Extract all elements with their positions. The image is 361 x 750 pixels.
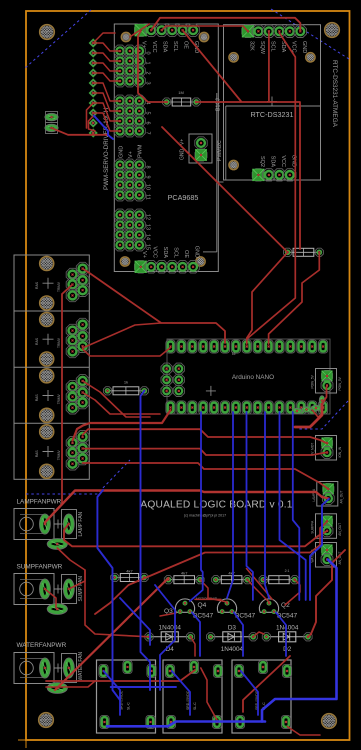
svg-text:7: 7 xyxy=(145,131,151,134)
svg-text:LAMP FAN: LAMP FAN xyxy=(78,511,84,536)
PCA9685 channel pad group 3 xyxy=(114,209,145,251)
resistor R7 near RTC xyxy=(293,248,314,256)
wire long diagonal to R7 xyxy=(162,127,288,252)
svg-text:32K: 32K xyxy=(249,41,255,51)
svg-text:4k7: 4k7 xyxy=(181,571,188,576)
svg-text:POW_5V: POW_5V xyxy=(338,376,342,390)
svg-text:SQW: SQW xyxy=(259,41,265,55)
polygon edge dashed mid-left xyxy=(26,460,130,494)
pad below LAMPFANPWR xyxy=(47,539,67,550)
NANO centre cross xyxy=(206,386,216,396)
svg-text:4k7: 4k7 xyxy=(126,569,133,574)
wire blue nano 6 xyxy=(293,412,300,600)
svg-text:GND: GND xyxy=(119,146,125,158)
svg-text:(c) machine@pl*pl pl 2017: (c) machine@pl*pl pl 2017 xyxy=(184,514,226,518)
wire R3 to Q xyxy=(200,580,227,602)
pad cluster near X2 ovals xyxy=(292,396,325,414)
PCA9685 top pin row xyxy=(135,24,200,36)
wire blue relay diag C xyxy=(241,671,258,715)
svg-text:PWMI2C: PWMI2C xyxy=(217,140,223,161)
fiducial via module top-left xyxy=(108,32,144,41)
svg-text:15: 15 xyxy=(145,244,151,250)
svg-text:OE: OE xyxy=(183,250,189,258)
svg-text:V+: V+ xyxy=(180,139,186,145)
svg-text:POW_5V: POW_5V xyxy=(311,374,315,388)
wire bus A xyxy=(83,429,328,443)
wire blue resistor drop xyxy=(141,391,151,690)
relay K1 hole bottom xyxy=(22,296,72,310)
PCA9685 bottom pin labels xyxy=(141,246,199,259)
NANO top pin row xyxy=(166,340,328,353)
transistor Q4 BC547 xyxy=(217,599,236,613)
wire cluster2 to nano xyxy=(83,348,171,357)
relay K3 hole bottom xyxy=(22,408,72,422)
wire sump vertical xyxy=(57,548,149,637)
svg-text:RAS: RAS xyxy=(35,337,39,345)
PCA9685 channel pad group 0 xyxy=(114,45,145,87)
resistor R3 4k7 xyxy=(174,576,195,584)
wire water diag long xyxy=(55,578,168,690)
polygon edge dashed top-right xyxy=(271,9,349,59)
wire cluster2 diagonal xyxy=(83,323,161,348)
label GND V+ PWM xyxy=(119,144,144,158)
module outline U1 PCA9685 xyxy=(114,24,218,272)
wire cluster1 diagonal xyxy=(83,269,225,343)
wire blue nano 3 xyxy=(247,412,253,600)
svg-text:V+: V+ xyxy=(141,251,147,258)
power jack WATERFANPWR xyxy=(14,653,54,684)
diode D4 1N4004 xyxy=(149,636,191,638)
wire right big diag to D2 xyxy=(308,550,345,637)
resistor R1 4k7 xyxy=(120,574,138,582)
svg-text:8: 8 xyxy=(145,165,151,168)
relay K1 centre cross xyxy=(43,278,54,289)
relay K4 pad cluster xyxy=(66,431,89,470)
svg-text:LAMPFANPWR: LAMPFANPWR xyxy=(17,499,62,506)
wire blue Q to relay 3 xyxy=(276,613,286,657)
wire SDA down to R2 xyxy=(138,31,167,102)
PCA9685 channel numbers 2 xyxy=(145,165,151,199)
svg-text:SCL: SCL xyxy=(172,41,178,52)
wire cluster3 out xyxy=(83,393,160,415)
wire OE diagonal to bus xyxy=(183,30,242,101)
wire nano pad to L xyxy=(312,410,322,417)
wire R2 bus right xyxy=(196,102,300,249)
transistor Q3 BC547 xyxy=(175,599,194,613)
wire nano feed A xyxy=(73,410,171,441)
wire bus C xyxy=(83,463,329,489)
relay K2 hole top xyxy=(22,313,72,327)
relay K5 xyxy=(97,660,157,733)
RTC centre cross xyxy=(267,97,277,107)
svg-text:SDA: SDA xyxy=(269,156,275,168)
svg-text:WATERFANPWR: WATERFANPWR xyxy=(17,642,67,649)
svg-text:SDA: SDA xyxy=(162,41,168,53)
wire JP1 to servo header xyxy=(52,128,109,135)
svg-text:AQUALED LOGIC BOARD v 0.1: AQUALED LOGIC BOARD v 0.1 xyxy=(140,500,292,511)
RTC bottom pin labels xyxy=(259,155,296,168)
wire blue Q to relay 1 xyxy=(192,613,200,657)
svg-text:SCL: SCL xyxy=(173,247,179,258)
relay K4 hole top xyxy=(22,425,72,439)
resistor R6 1k xyxy=(103,380,148,395)
mounting hole bottom-left xyxy=(21,713,72,728)
relay K2 centre cross xyxy=(43,334,54,345)
relay K3 centre cross xyxy=(43,390,54,401)
svg-text:SL-C: SL-C xyxy=(127,702,131,710)
connector X1 POW_5V xyxy=(311,369,343,394)
wire top rail 2 xyxy=(162,26,248,31)
PCA9685 channel numbers 3 xyxy=(145,214,151,250)
PCA9685 top pin labels xyxy=(141,41,199,53)
wire blue nano 1 xyxy=(190,412,203,601)
svg-text:TRIMV: TRIMV xyxy=(57,337,61,348)
RTC via right-top xyxy=(293,53,329,62)
svg-text:SQ2: SQ2 xyxy=(259,156,265,167)
wire D3 link xyxy=(253,632,264,637)
wire L to conn1 xyxy=(322,387,327,404)
wire lamp right to conn4 xyxy=(64,524,327,547)
wire relay mid red xyxy=(243,656,290,712)
wire servo header stub top xyxy=(87,103,94,128)
relay K3 pad cluster xyxy=(66,375,89,414)
relay K6 xyxy=(163,660,223,733)
NANO ICSP header xyxy=(161,363,184,396)
svg-text:14: 14 xyxy=(145,234,151,240)
wire servo header branch xyxy=(89,115,96,131)
polygon edge dashed top-left xyxy=(25,10,91,68)
wire top rail VCC xyxy=(151,18,300,32)
wire water bottom 2 xyxy=(46,681,95,687)
pin pad right WATERFANPWR xyxy=(54,654,77,683)
power jack LAMPFANPWR xyxy=(14,509,54,540)
RTC top pin labels xyxy=(249,41,307,55)
svg-text:2:1: 2:1 xyxy=(285,569,290,573)
svg-text:SUMPFANPWR: SUMPFANPWR xyxy=(17,564,63,571)
svg-text:SDA: SDA xyxy=(162,247,168,259)
power jack SUMPFANPWR xyxy=(14,574,54,605)
wire servo stubs xyxy=(93,43,120,131)
connector X5 WATERFAN_OUT xyxy=(311,543,343,568)
svg-text:VCC: VCC xyxy=(152,246,158,258)
wire water bottom 1 xyxy=(46,670,195,681)
wire D4 to relay xyxy=(191,637,196,656)
svg-text:D2: D2 xyxy=(283,646,292,653)
mounting hole top-right xyxy=(307,23,358,38)
wire blue relay diag B xyxy=(172,671,190,715)
svg-text:0: 0 xyxy=(145,51,151,54)
wire blue nano 5 xyxy=(280,412,306,600)
svg-text:9: 9 xyxy=(145,175,151,178)
svg-text:Q4: Q4 xyxy=(198,602,207,609)
connector X4 SUMPFAN_OUT xyxy=(311,514,343,539)
relay K4 centre cross xyxy=(43,446,54,457)
relay K1 hole top xyxy=(22,257,72,271)
svg-text:13: 13 xyxy=(145,224,151,230)
wire blue lamp drop xyxy=(97,490,120,700)
servo header pin column J1 xyxy=(90,40,97,137)
relay K1 pad cluster xyxy=(66,262,89,301)
relay K7 xyxy=(232,660,292,733)
svg-text:SCL: SCL xyxy=(269,41,275,52)
svg-text:V+: V+ xyxy=(128,151,134,158)
svg-text:Arduino NANO: Arduino NANO xyxy=(232,374,274,381)
fiducial via module bottom-left xyxy=(107,257,143,266)
svg-text:TRIMV: TRIMV xyxy=(57,450,61,461)
label Q4 xyxy=(193,602,213,620)
connector X3 LAMPFAN_OUT xyxy=(312,482,344,507)
label GND V+ vertical xyxy=(180,139,186,160)
mounting hole top-left xyxy=(22,25,73,40)
svg-text:2: 2 xyxy=(145,71,151,74)
svg-text:5: 5 xyxy=(145,111,151,114)
relay K3 hole top xyxy=(22,369,72,383)
PCA9685 channel numbers 0 xyxy=(145,51,151,84)
wire cluster3 diagonal down xyxy=(83,381,150,417)
wire Q diag link xyxy=(247,569,273,600)
diode D2 1N4004 xyxy=(266,636,308,638)
wire servo top stub xyxy=(93,33,115,43)
pad below WATERFANPWR xyxy=(47,683,67,694)
terminal block column outline K1-K4 xyxy=(14,255,89,479)
svg-text:RAS: RAS xyxy=(35,281,39,289)
RTC via left-top xyxy=(216,53,252,62)
svg-text:RAS: RAS xyxy=(35,394,39,402)
svg-text:D3: D3 xyxy=(228,624,237,631)
svg-text:1N4004: 1N4004 xyxy=(159,624,182,631)
svg-text:1M: 1M xyxy=(178,90,184,95)
wire sump out xyxy=(69,570,85,589)
svg-text:ION_IN: ION_IN xyxy=(338,446,342,457)
wire blue nano 4 xyxy=(265,412,269,598)
wire thick L near X2 xyxy=(295,404,322,427)
svg-text:AN_OUT: AN_OUT xyxy=(338,523,342,536)
fiducial via module bottom-right xyxy=(183,257,219,266)
module outline U2 RTC-DS3231 xyxy=(224,25,321,180)
svg-text:AN_OUT: AN_OUT xyxy=(339,491,343,504)
relay K3 labels xyxy=(35,394,61,405)
diode D3 1N4004 xyxy=(211,636,254,638)
svg-text:11: 11 xyxy=(145,194,151,200)
wire mid horizontal to conn4 sq xyxy=(95,553,310,615)
label Q2 xyxy=(277,602,297,620)
svg-text:SUMP FAN: SUMP FAN xyxy=(78,576,84,602)
svg-text:1N4004: 1N4004 xyxy=(276,624,299,631)
wire blue water rail xyxy=(111,686,176,688)
connector frame right of PWMI2C xyxy=(218,181,223,183)
wire R4 to Q xyxy=(247,580,269,602)
wire blue nano 2 xyxy=(227,412,233,598)
wire R7 right down to nano xyxy=(269,252,320,344)
svg-text:RAS: RAS xyxy=(35,450,39,458)
PCA9685 channel pad group 2 xyxy=(114,159,145,201)
wire Q row link xyxy=(195,598,221,600)
svg-text:PCA9685: PCA9685 xyxy=(168,193,199,202)
svg-text:k5: k5 xyxy=(232,352,236,356)
wire bottom right red xyxy=(287,727,320,736)
svg-text:1k: 1k xyxy=(124,380,128,385)
connector JP3 PWM12C xyxy=(189,134,212,163)
pin pad right LAMPFANPWR xyxy=(54,510,77,539)
wire bus B xyxy=(83,449,328,455)
transistor Q2 BC547 xyxy=(259,599,278,613)
svg-text:1N4004: 1N4004 xyxy=(221,646,244,653)
wire RTC SDA diagonal down xyxy=(247,33,295,344)
PCA9685 bottom pin row xyxy=(135,261,200,273)
wire right top red diag xyxy=(130,24,149,37)
PCA9685 channel pad group 1 xyxy=(114,95,145,137)
svg-text:VCC: VCC xyxy=(151,41,157,53)
svg-text:OE: OE xyxy=(183,41,189,49)
svg-text:RTC-DS3231: RTC-DS3231 xyxy=(250,110,293,119)
resistor R4 4k7 xyxy=(221,576,242,584)
RTC inner board outline xyxy=(226,106,321,180)
pad below SUMPFANPWR xyxy=(47,604,67,615)
svg-text:12: 12 xyxy=(145,214,151,220)
module outline Arduino NANO U3 xyxy=(167,339,330,414)
wire RTC SCL down xyxy=(268,33,270,102)
PCA9685 channel numbers 1 xyxy=(145,101,151,134)
wire sump diag xyxy=(45,589,56,608)
svg-text:TRIMV: TRIMV xyxy=(57,281,61,292)
svg-text:RTC-DS3231-ATMEGA: RTC-DS3231-ATMEGA xyxy=(331,60,338,128)
resistor R5 4k7 xyxy=(269,576,290,584)
NANO bottom pin row xyxy=(166,401,328,414)
svg-text:10: 10 xyxy=(145,184,151,190)
wire blue conn3 xyxy=(310,499,329,600)
wire cluster1 left down xyxy=(57,284,73,509)
wire R5 to Q2 xyxy=(285,580,300,605)
connector X2 5V_MOTION_IN xyxy=(311,436,343,461)
RTC bottom pin row xyxy=(252,169,296,181)
relay K1 labels xyxy=(35,281,61,292)
wire blue right vertical xyxy=(262,560,337,722)
svg-text:PWM: PWM xyxy=(138,144,144,158)
wire blue JP1 bend xyxy=(94,116,113,139)
wire blue relay diag A xyxy=(104,671,121,715)
polygon edge dashed mid-right xyxy=(299,401,348,429)
pin pad right SUMPFANPWR xyxy=(54,575,77,604)
wire blue Q to relay 2 xyxy=(234,613,243,657)
RTC top pin row xyxy=(242,25,307,37)
svg-text:4k7: 4k7 xyxy=(228,571,235,576)
svg-text:5V_MOT: 5V_MOT xyxy=(311,443,315,456)
battery holder outline B1 xyxy=(203,93,217,252)
svg-text:TRIMV: TRIMV xyxy=(57,394,61,405)
wire blue diag bottom 1 xyxy=(155,585,175,690)
wire conn4 sq feed xyxy=(310,521,327,552)
svg-text:LAMPFA: LAMPFA xyxy=(312,488,316,501)
relay K2 pad cluster xyxy=(66,318,89,357)
resistor R2 1M xyxy=(163,90,201,106)
wire blue bottom rail xyxy=(107,722,265,727)
svg-text:VCC: VCC xyxy=(280,155,286,167)
relay K2 labels xyxy=(35,337,61,348)
wire R7 left pad down to nano xyxy=(247,252,288,338)
relay K2 hole bottom xyxy=(22,352,72,366)
svg-text:6: 6 xyxy=(145,121,151,124)
wire Q3 base link xyxy=(160,613,176,616)
svg-text:1: 1 xyxy=(145,61,151,64)
svg-text:GND: GND xyxy=(301,41,307,53)
svg-text:SL-C: SL-C xyxy=(193,702,197,710)
relay K4 labels xyxy=(35,450,61,461)
relay K4 hole bottom xyxy=(22,464,72,478)
svg-text:3: 3 xyxy=(145,81,151,84)
svg-text:B1CJ: B1CJ xyxy=(216,98,222,111)
mounting hole bottom-right xyxy=(304,714,355,729)
fiducial via module top-right xyxy=(186,32,222,41)
svg-text:GND: GND xyxy=(194,246,200,258)
wire relay B red xyxy=(201,668,218,722)
wire blue diag bottom 2 xyxy=(120,598,150,645)
svg-text:SUMPFA: SUMPFA xyxy=(311,520,315,534)
wire lamp diag to conn3 xyxy=(45,491,328,523)
connector JP1 pads xyxy=(45,112,58,134)
RTC via left-bottom xyxy=(216,160,252,169)
